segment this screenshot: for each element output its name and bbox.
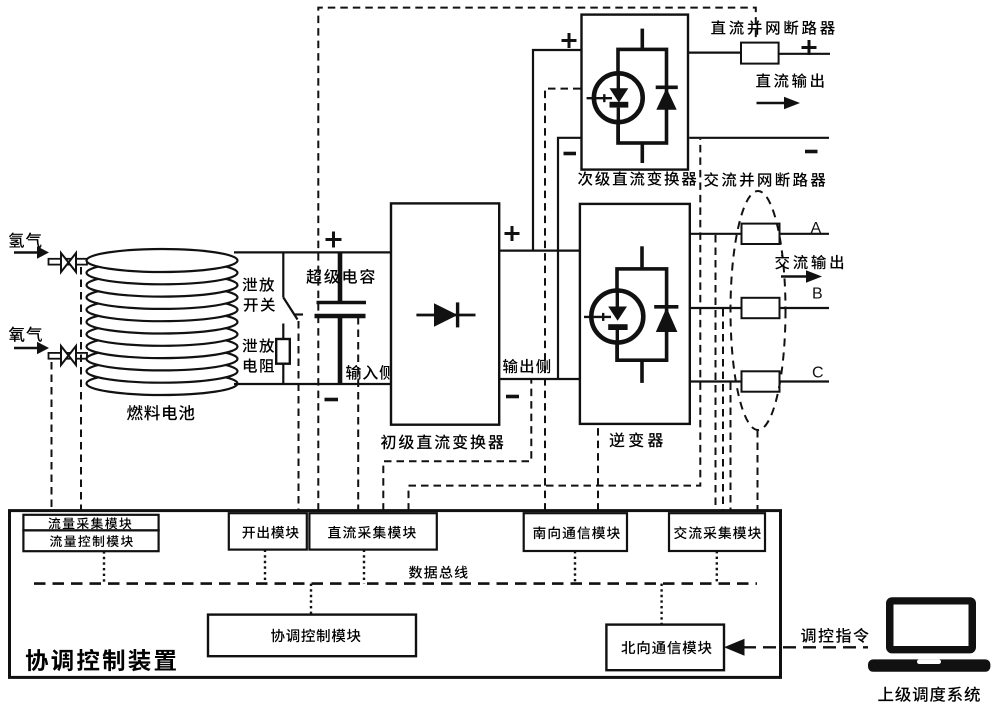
- valve V2 (oxygen inlet): [61, 346, 76, 365]
- DC output arrow: [757, 97, 801, 109]
- label: 输出侧: [503, 359, 550, 373]
- AC sampling module box 交流采集模块: [669, 513, 765, 551]
- label: 超级电容: [306, 269, 374, 284]
- label: 协调控制装置 (device title): [26, 649, 176, 671]
- hydrogen pipe: [49, 259, 88, 265]
- label: 逆变器: [610, 432, 663, 447]
- dashed line: phase B tap: [722, 309, 724, 511]
- dotted link: AC sampling to bus: [716, 551, 718, 584]
- hydrogen flow arrow: [14, 246, 49, 258]
- wire: DC output + after breaker: [779, 53, 830, 55]
- dashed line: primary output measure: [383, 380, 531, 511]
- label: 直流并网断路器: [711, 20, 835, 35]
- label: 输入侧: [346, 365, 394, 380]
- wire: primary output - rail: [499, 378, 580, 380]
- label: 次级直流变换器: [578, 171, 696, 186]
- wire: phase A: [690, 233, 829, 235]
- label: 初级直流变换器: [381, 434, 504, 449]
- laptop icon (superior dispatch system): [868, 597, 990, 672]
- label: 交流采集模块: [674, 526, 761, 539]
- label: 调控指令: [801, 628, 869, 643]
- svg-text:A: A: [811, 220, 822, 237]
- coordination control device box 协调控制装置: [10, 511, 781, 678]
- wire: primary output + rail: [499, 250, 580, 252]
- oxygen pipe: [49, 353, 88, 359]
- dashed line: hydrogen valve to flow module: [80, 267, 82, 511]
- dotted link: southbound comm to bus: [574, 551, 576, 584]
- label: 流量采集模块: [48, 517, 131, 529]
- diode D1 (primary converter): [416, 302, 475, 327]
- wire: stack + top rail: [234, 251, 391, 253]
- command arrow into northbound module: [724, 639, 868, 656]
- AC breaker pole (phase A): [742, 224, 780, 244]
- dashed line: DC output measure: [409, 139, 701, 511]
- IGBT module Q1 with antiparallel diode (secondary DC converter): [587, 29, 678, 163]
- primary DC converter box 初级直流变换器: [391, 203, 499, 424]
- svg-text:B: B: [812, 286, 823, 303]
- label: 氧气 (oxygen): [9, 327, 42, 342]
- northbound comm module box 北向通信模块: [606, 625, 724, 671]
- DC grid-connection breaker 直流并网断路器: [741, 43, 779, 64]
- discharge resistor 泄放电阻: [276, 339, 290, 384]
- label: 流量控制模块: [50, 535, 133, 547]
- dashed line: secondary converter control: [545, 89, 582, 511]
- southbound comm module box 南向通信模块: [524, 513, 627, 551]
- minus sign (input -): [325, 398, 339, 402]
- AC output arrow: [781, 270, 822, 282]
- dotted link: output module to bus: [264, 550, 266, 584]
- wire: stack - bottom rail: [234, 383, 391, 385]
- label: 开出模块: [242, 526, 298, 539]
- wire: DC output -: [689, 137, 829, 139]
- wire: DC output + to breaker: [688, 51, 741, 53]
- label: 燃料电池: [127, 405, 194, 420]
- coordination control module box 协调控制模块: [208, 615, 416, 657]
- label: 直流采集模块: [328, 526, 416, 539]
- label: 泄放电阻: [242, 338, 274, 372]
- discharge switch 泄放开关: [283, 252, 303, 339]
- dashed line: discharge switch control: [298, 321, 300, 511]
- label: 氢气 (hydrogen): [9, 232, 42, 247]
- CT sensing ellipse (dashed) around AC breakers: [731, 191, 786, 430]
- dotted link: DC sampling to bus: [363, 550, 365, 584]
- AC breaker pole (phase B): [742, 298, 780, 318]
- flow control module box 流量控制模块: [23, 530, 158, 551]
- IGBT module Q2 with antiparallel diode (inverter): [584, 246, 678, 383]
- supercapacitor 超级电容: [315, 252, 367, 384]
- dashed line: phase A tap: [715, 235, 717, 511]
- dotted link: bus to coordination module: [310, 584, 312, 615]
- wire: - riser to secondary converter: [558, 138, 582, 379]
- label: 北向通信模块: [621, 641, 711, 655]
- minus sign (DC output -): [805, 150, 818, 154]
- secondary DC converter box 次级直流变换器: [582, 15, 689, 170]
- plus sign (input +): [326, 232, 342, 248]
- minus sign (secondary input -): [564, 152, 577, 156]
- dashed line: inverter control: [597, 425, 599, 511]
- plus sign (DC output +): [802, 40, 817, 55]
- label: 交流并网断路器: [704, 172, 825, 187]
- label: 上级调度系统: [878, 686, 980, 701]
- wire: + riser to secondary converter: [533, 50, 582, 251]
- label: 直流输出: [756, 73, 823, 87]
- wire: phase C: [690, 380, 829, 382]
- dashed line: input side measure: [357, 317, 359, 511]
- label: 协调控制模块: [271, 629, 360, 643]
- dashed line: CT to AC sampling module: [757, 430, 759, 511]
- minus sign (primary output -): [506, 395, 519, 399]
- svg-text:C: C: [812, 365, 824, 382]
- inverter box 逆变器: [580, 204, 690, 424]
- label: 交流输出: [775, 255, 843, 270]
- dotted link: flow modules to bus: [103, 551, 105, 583]
- wire: phase B: [690, 307, 829, 309]
- data bus (dashed) 数据总线: [34, 582, 757, 585]
- label: 南向通信模块: [533, 526, 620, 539]
- AC breaker pole (phase C): [742, 371, 780, 391]
- plus sign (secondary input +): [562, 33, 577, 48]
- DC sampling module box 直流采集模块: [309, 513, 436, 549]
- plus sign (primary output +): [505, 226, 520, 241]
- digital output module box 开出模块: [229, 513, 307, 549]
- oxygen flow arrow: [14, 342, 49, 354]
- valve V1 (hydrogen inlet): [61, 253, 76, 272]
- dashed line: oxygen valve to flow module: [51, 362, 53, 511]
- flow acquisition module box 流量采集模块: [23, 515, 158, 531]
- fuel cell stack 燃料电池: [87, 249, 238, 395]
- dashed line: DC breaker control (top route): [318, 8, 756, 511]
- label: 泄放开关: [242, 277, 275, 311]
- dotted link: bus to northbound comm: [660, 584, 662, 625]
- label: 数据总线: [409, 566, 468, 579]
- dashed line: phase C tap: [730, 383, 732, 511]
